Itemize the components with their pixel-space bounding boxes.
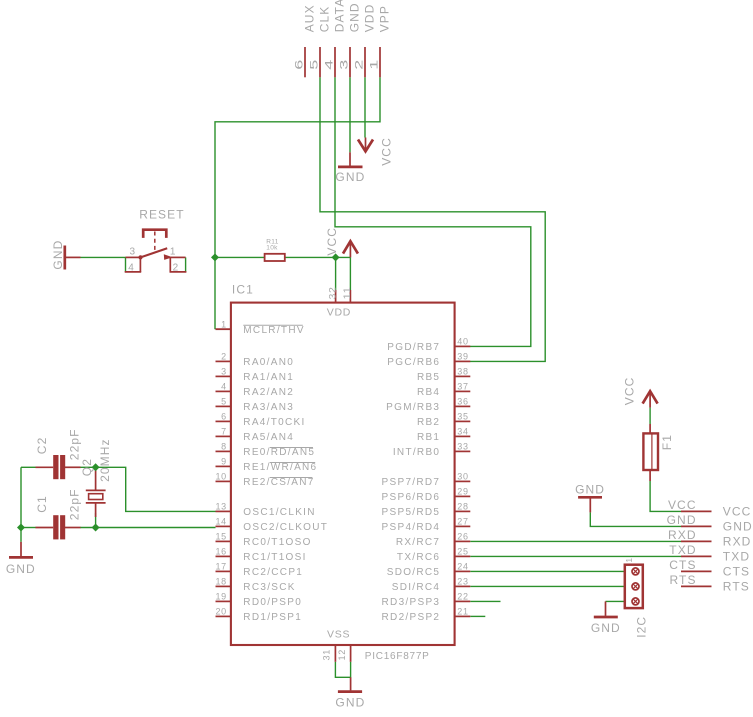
svg-text:PSP4/RD4: PSP4/RD4 <box>382 522 441 533</box>
svg-text:32: 32 <box>327 286 337 299</box>
svg-text:11: 11 <box>342 286 352 299</box>
svg-text:RC1/T1OSI: RC1/T1OSI <box>243 552 306 563</box>
svg-text:RA1/AN1: RA1/AN1 <box>243 372 294 383</box>
svg-text:20MHz: 20MHz <box>98 438 112 482</box>
svg-text:RB4: RB4 <box>417 387 440 398</box>
svg-text:RA2/AN2: RA2/AN2 <box>243 387 294 398</box>
svg-text:33: 33 <box>457 442 468 452</box>
svg-text:5: 5 <box>221 397 227 407</box>
svg-text:OSC2/CLKOUT: OSC2/CLKOUT <box>243 522 328 533</box>
svg-text:RXD: RXD <box>668 528 697 542</box>
svg-text:I2C: I2C <box>634 616 648 638</box>
svg-text:2: 2 <box>354 60 366 70</box>
svg-text:1: 1 <box>170 246 176 257</box>
svg-text:23: 23 <box>457 577 468 587</box>
svg-text:F1: F1 <box>660 434 674 450</box>
svg-text:GND: GND <box>6 562 36 576</box>
svg-text:DATA: DATA <box>333 0 347 32</box>
svg-text:38: 38 <box>457 367 468 377</box>
svg-text:22pF: 22pF <box>67 488 81 520</box>
svg-text:31: 31 <box>321 649 331 661</box>
svg-text:RESET: RESET <box>139 208 185 222</box>
svg-text:RC3/SCK: RC3/SCK <box>243 582 295 593</box>
svg-text:PIC16F877P: PIC16F877P <box>365 651 430 662</box>
svg-text:2: 2 <box>173 263 179 274</box>
svg-text:25: 25 <box>457 547 468 557</box>
svg-text:22: 22 <box>457 592 468 602</box>
svg-text:6: 6 <box>221 412 227 422</box>
svg-text:RC0/T1OSO: RC0/T1OSO <box>243 537 311 548</box>
svg-text:PGC/RB6: PGC/RB6 <box>387 357 440 368</box>
svg-text:GND: GND <box>667 513 697 527</box>
svg-text:RB1: RB1 <box>417 432 440 443</box>
svg-text:GND: GND <box>723 520 753 534</box>
svg-text:RTS: RTS <box>670 573 697 587</box>
svg-text:22pF: 22pF <box>67 428 81 460</box>
svg-text:4: 4 <box>324 60 336 70</box>
svg-text:PSP5/RD5: PSP5/RD5 <box>382 507 441 518</box>
svg-text:RX/RC7: RX/RC7 <box>396 537 440 548</box>
svg-text:GND: GND <box>335 170 365 184</box>
svg-text:C1: C1 <box>35 495 49 513</box>
svg-text:RE1/WR/AN6: RE1/WR/AN6 <box>243 462 317 473</box>
svg-text:4: 4 <box>128 263 134 274</box>
svg-text:RE2/CS/AN7: RE2/CS/AN7 <box>243 477 314 488</box>
svg-text:RD2/PSP2: RD2/PSP2 <box>382 612 441 623</box>
svg-text:15: 15 <box>215 532 226 542</box>
svg-text:7: 7 <box>221 427 227 437</box>
svg-text:19: 19 <box>215 592 226 602</box>
svg-text:VCC: VCC <box>325 227 339 256</box>
svg-text:RB2: RB2 <box>417 417 440 428</box>
svg-text:1: 1 <box>221 319 227 329</box>
svg-text:C2: C2 <box>35 437 49 455</box>
svg-text:18: 18 <box>215 577 226 587</box>
svg-text:9: 9 <box>221 457 227 467</box>
svg-text:INT/RB0: INT/RB0 <box>393 447 440 458</box>
svg-text:RD1/PSP1: RD1/PSP1 <box>243 612 302 623</box>
svg-text:3: 3 <box>130 246 136 257</box>
svg-text:24: 24 <box>457 562 468 572</box>
svg-text:VDD: VDD <box>363 4 377 33</box>
svg-text:34: 34 <box>457 427 468 437</box>
svg-text:37: 37 <box>457 382 468 392</box>
svg-text:CTS: CTS <box>723 565 750 579</box>
svg-text:GND: GND <box>348 2 362 32</box>
svg-text:13: 13 <box>215 502 226 512</box>
svg-text:GND: GND <box>575 482 605 496</box>
svg-text:28: 28 <box>457 502 468 512</box>
svg-text:PSP7/RD7: PSP7/RD7 <box>382 477 441 488</box>
svg-text:RTS: RTS <box>723 580 750 594</box>
svg-text:10: 10 <box>215 472 226 482</box>
svg-text:30: 30 <box>457 472 468 482</box>
svg-text:3: 3 <box>339 60 351 70</box>
svg-text:4: 4 <box>221 382 227 392</box>
svg-text:SDO/RC5: SDO/RC5 <box>387 567 441 578</box>
svg-text:RA0/AN0: RA0/AN0 <box>243 357 294 368</box>
svg-text:Q2: Q2 <box>80 458 94 476</box>
svg-text:VPP: VPP <box>378 5 392 32</box>
svg-text:GND: GND <box>335 695 365 709</box>
svg-text:40: 40 <box>457 337 468 347</box>
svg-text:VCC: VCC <box>668 498 697 512</box>
svg-text:CTS: CTS <box>669 558 696 572</box>
svg-text:RA4/T0CKI: RA4/T0CKI <box>243 417 305 428</box>
svg-text:GND: GND <box>591 621 621 635</box>
svg-text:TX/RC6: TX/RC6 <box>397 552 440 563</box>
svg-text:16: 16 <box>215 547 226 557</box>
svg-text:5: 5 <box>309 60 321 70</box>
svg-text:35: 35 <box>457 412 468 422</box>
svg-text:TXD: TXD <box>669 543 696 557</box>
svg-text:8: 8 <box>221 442 227 452</box>
svg-text:IC1: IC1 <box>232 282 254 296</box>
svg-text:1: 1 <box>369 60 381 70</box>
svg-text:AUX: AUX <box>303 4 317 32</box>
svg-text:39: 39 <box>457 352 468 362</box>
svg-text:14: 14 <box>215 517 226 527</box>
svg-text:MCLR/THV: MCLR/THV <box>243 325 305 336</box>
svg-text:RC2/CCP1: RC2/CCP1 <box>243 567 303 578</box>
svg-text:PSP6/RD6: PSP6/RD6 <box>382 492 441 503</box>
svg-text:GND: GND <box>51 240 65 270</box>
svg-text:RA3/AN3: RA3/AN3 <box>243 402 294 413</box>
svg-text:12: 12 <box>337 649 347 661</box>
svg-text:1: 1 <box>624 558 634 563</box>
svg-text:RB5: RB5 <box>417 372 440 383</box>
svg-text:RD3/PSP3: RD3/PSP3 <box>382 597 441 608</box>
svg-text:TXD: TXD <box>723 550 750 564</box>
svg-text:VCC: VCC <box>380 137 394 166</box>
svg-text:27: 27 <box>457 517 468 527</box>
svg-text:21: 21 <box>457 607 468 617</box>
svg-text:3: 3 <box>221 367 227 377</box>
svg-text:RE0/RD/AN5: RE0/RD/AN5 <box>243 447 315 458</box>
svg-text:RXD: RXD <box>723 535 752 549</box>
svg-text:RD0/PSP0: RD0/PSP0 <box>243 597 302 608</box>
svg-text:CLK: CLK <box>318 6 332 33</box>
svg-text:SDI/RC4: SDI/RC4 <box>392 582 441 593</box>
svg-text:26: 26 <box>457 532 468 542</box>
svg-text:RA5/AN4: RA5/AN4 <box>243 432 294 443</box>
svg-text:29: 29 <box>457 487 468 497</box>
svg-text:VCC: VCC <box>622 377 636 406</box>
svg-text:6: 6 <box>294 60 306 70</box>
svg-text:PGM/RB3: PGM/RB3 <box>386 402 440 413</box>
svg-text:VDD: VDD <box>327 306 351 318</box>
svg-text:PGD/RB7: PGD/RB7 <box>387 342 440 353</box>
svg-text:17: 17 <box>215 562 226 572</box>
svg-text:VCC: VCC <box>723 505 752 519</box>
svg-text:36: 36 <box>457 397 468 407</box>
svg-text:10k: 10k <box>266 245 278 252</box>
svg-text:VSS: VSS <box>327 628 350 640</box>
svg-text:OSC1/CLKIN: OSC1/CLKIN <box>243 507 315 518</box>
svg-text:20: 20 <box>215 607 226 617</box>
svg-text:2: 2 <box>221 352 227 362</box>
